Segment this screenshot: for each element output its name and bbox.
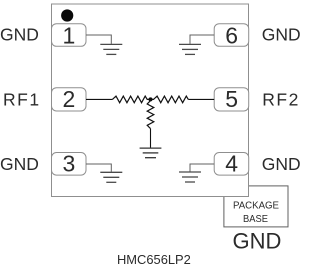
svg-text:1: 1: [63, 23, 76, 49]
ground at pin 4: [179, 172, 201, 182]
pin box 1: [52, 24, 87, 47]
svg-text:3: 3: [63, 151, 76, 177]
pin box 5: [214, 88, 249, 111]
svg-text:GND: GND: [0, 154, 39, 174]
pin box 4: [214, 153, 249, 176]
wire pin 3 to ground: [86, 164, 111, 172]
resistor R3 (shunt, vertical): [147, 99, 154, 128]
ground at pin 6: [179, 44, 201, 54]
svg-text:GND: GND: [262, 154, 301, 174]
svg-text:4: 4: [225, 151, 238, 177]
resistor R2 (series, right): [151, 96, 189, 103]
svg-text:GND: GND: [0, 25, 39, 45]
wire pin 2 to resistor R1: [86, 98, 112, 100]
wire resistor R3 to ground: [150, 129, 152, 149]
wire pin 4 to ground: [190, 164, 214, 172]
svg-text:RF2: RF2: [262, 90, 300, 110]
ground at center node: [140, 148, 162, 158]
wire pin 6 to ground: [190, 35, 214, 44]
pin 1 marker dot: [61, 9, 73, 21]
resistor R1 (series, left): [112, 96, 150, 103]
pin box 2: [52, 88, 87, 111]
svg-text:GND: GND: [233, 229, 282, 254]
ground at pin 3: [100, 172, 122, 182]
node junction: [149, 97, 153, 101]
svg-text:RF1: RF1: [3, 90, 41, 110]
svg-text:5: 5: [225, 86, 238, 112]
svg-text:6: 6: [225, 23, 238, 49]
svg-text:HMC656LP2: HMC656LP2: [117, 252, 191, 267]
wire pin 1 to ground: [86, 35, 111, 44]
package base box: [224, 186, 288, 227]
svg-text:PACKAGE: PACKAGE: [233, 200, 279, 211]
wire resistor R2 to pin 5: [188, 98, 214, 100]
IC body U1: [52, 4, 249, 197]
svg-text:BASE: BASE: [243, 214, 268, 225]
pin box 6: [214, 24, 249, 47]
ground at pin 1: [100, 44, 122, 54]
svg-text:2: 2: [63, 86, 76, 112]
pin box 3: [52, 153, 87, 176]
svg-text:GND: GND: [262, 25, 301, 45]
